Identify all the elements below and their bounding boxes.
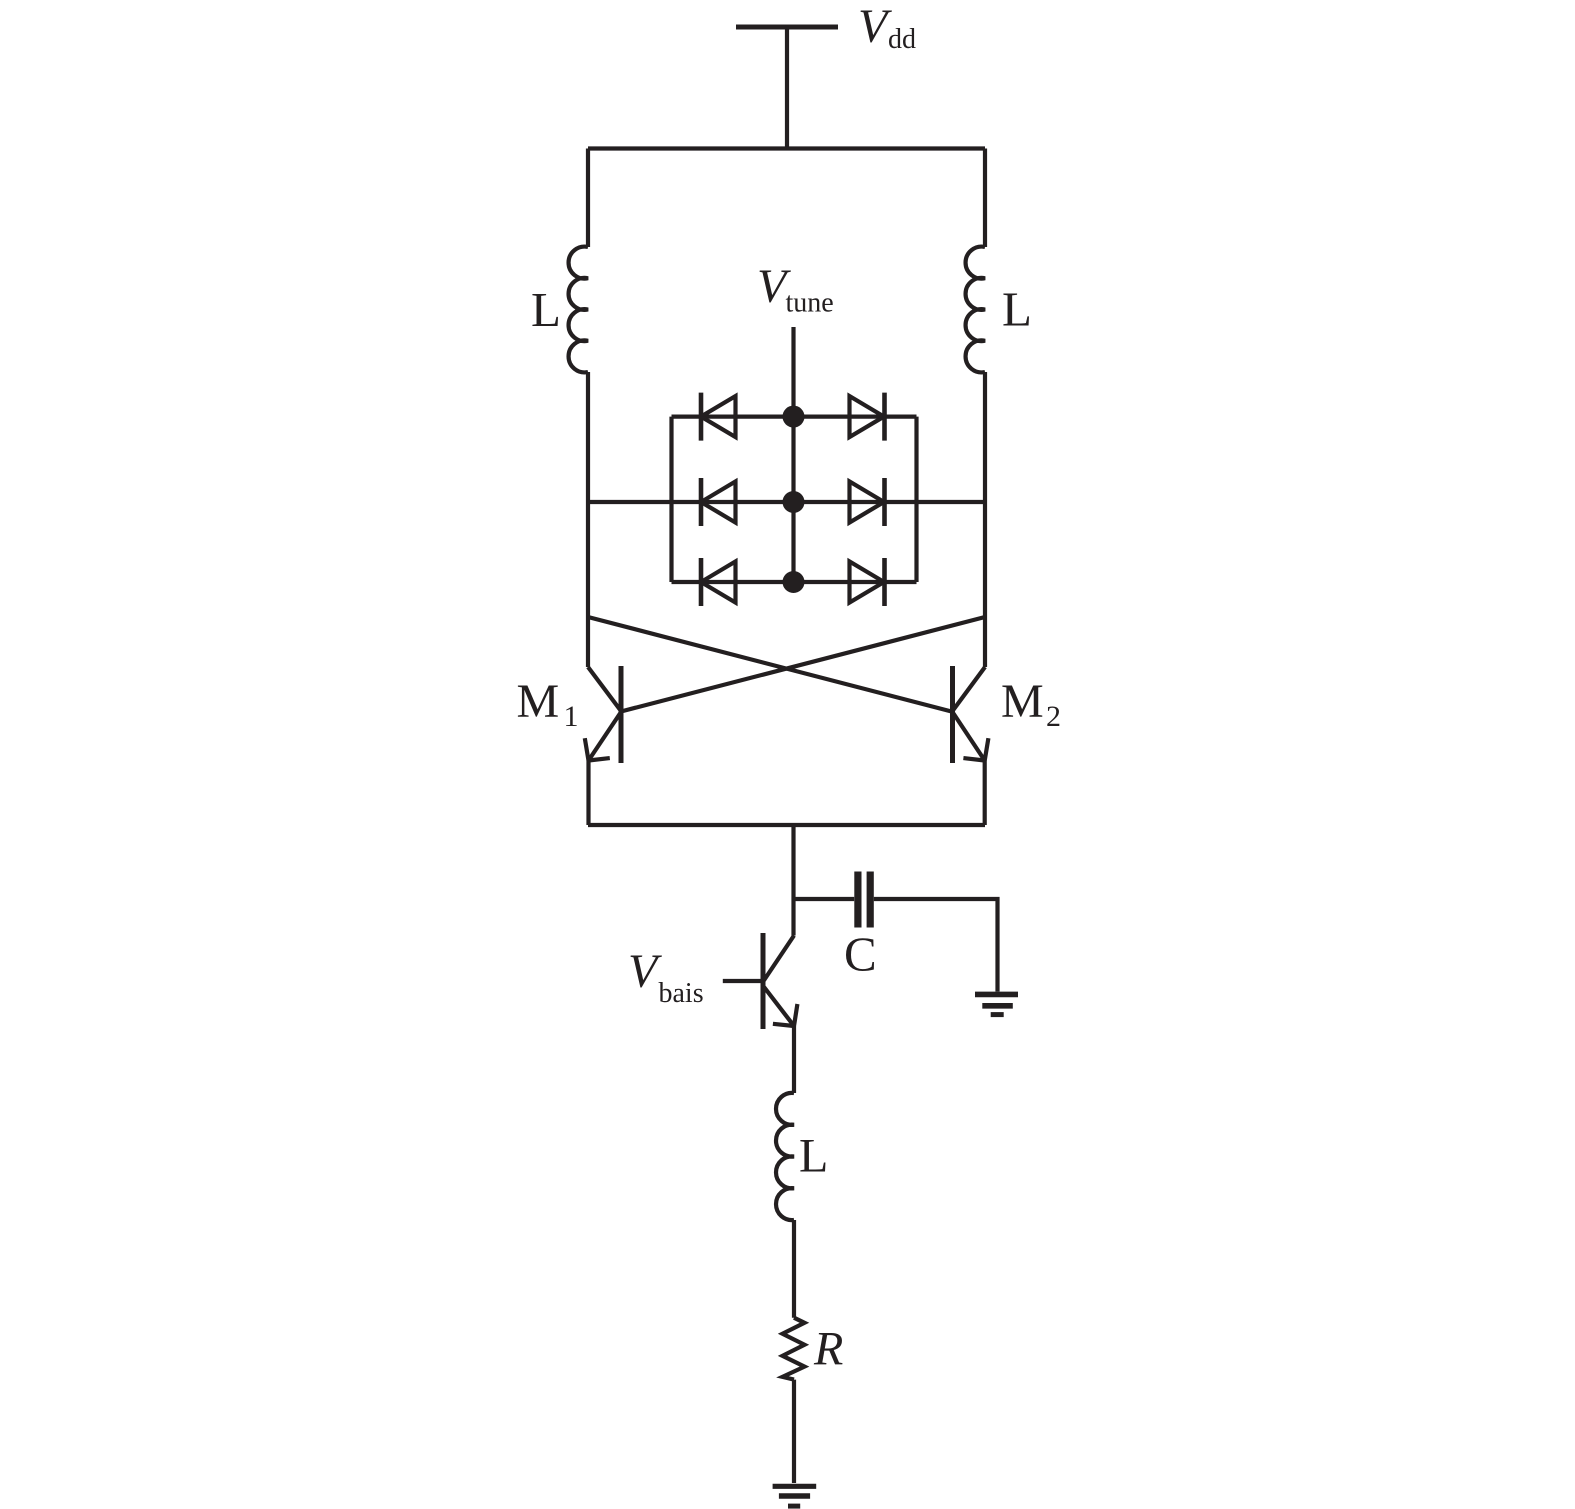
svg-text:dd: dd xyxy=(888,24,916,55)
svg-text:tune: tune xyxy=(786,288,834,319)
svg-text:bais: bais xyxy=(659,978,704,1009)
svg-text:V: V xyxy=(858,0,892,53)
svg-text:V: V xyxy=(628,945,662,998)
svg-text:M: M xyxy=(1001,675,1044,728)
svg-text:R: R xyxy=(813,1323,843,1376)
svg-text:L: L xyxy=(799,1130,828,1183)
svg-text:M: M xyxy=(517,675,560,728)
svg-text:L: L xyxy=(1002,282,1032,337)
svg-text:1: 1 xyxy=(564,700,579,733)
svg-text:L: L xyxy=(531,282,561,337)
svg-text:C: C xyxy=(844,927,877,982)
svg-text:2: 2 xyxy=(1046,700,1061,733)
